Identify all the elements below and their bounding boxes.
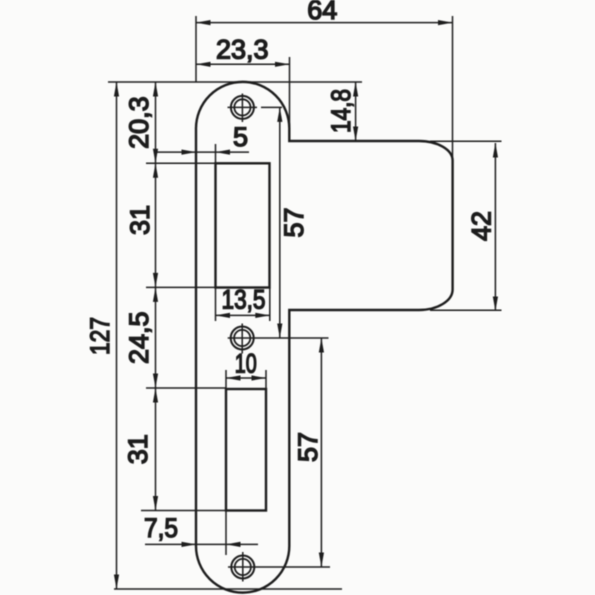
middle screw hole crosshair [228, 324, 262, 354]
svg-text:23,3: 23,3 [216, 35, 269, 65]
dimension 127 line [116, 82, 118, 589]
dimension 23,3 line [196, 63, 290, 65]
svg-text:57: 57 [293, 432, 323, 462]
dimension 57 second (between middle and bottom hole) [320, 338, 322, 567]
arrows 31 [153, 163, 158, 178]
svg-text:13,5: 13,5 [222, 284, 266, 314]
left stacked dimension line x=155.5 [155, 82, 157, 511]
left extension line x=196 (64 and 23,3) [195, 16, 197, 82]
svg-text:64: 64 [307, 0, 337, 25]
dimension 57 first (between top and middle hole) [279, 107, 281, 338]
deadbolt rectangular hole (10 x 31) [226, 389, 266, 511]
arrows 31 second [153, 388, 158, 403]
svg-text:31: 31 [125, 205, 155, 235]
svg-text:14,8: 14,8 [326, 89, 356, 133]
bottom extension line y=589 [114, 588, 342, 590]
dimension 13,5 [216, 314, 270, 316]
strike plate outline [196, 82, 453, 593]
svg-text:127: 127 [85, 317, 115, 355]
top extension line y=82 [108, 81, 362, 83]
svg-text:10: 10 [235, 349, 257, 379]
svg-text:24,5: 24,5 [124, 311, 154, 364]
tick x=215.5 for 5 [215, 144, 217, 163]
tick y=287.4 [146, 286, 216, 288]
bottom screw hole [231, 556, 254, 579]
10 extension lines [226, 370, 266, 389]
13,5 extension lines [216, 288, 270, 322]
dimension 10 [226, 377, 266, 379]
extension line x=289.5 (23,3) [289, 57, 291, 127]
right extension line x=452.5 (64) [452, 16, 454, 157]
leader middle hole [262, 337, 329, 339]
7,5 extension line [225, 511, 227, 556]
arrows 24,5 [153, 287, 158, 302]
leader top hole [262, 106, 282, 108]
dimension 5 line [157, 151, 249, 153]
tick y=510.5 [141, 510, 226, 512]
svg-text:7,5: 7,5 [144, 513, 178, 543]
dimension 14,8 [355, 82, 357, 141]
dimension 64 line [196, 22, 453, 24]
tick y=163.3 [146, 162, 216, 164]
dimension 7,5 [145, 543, 258, 545]
leader bottom hole [262, 566, 330, 568]
bottom screw hole crosshair [228, 552, 262, 582]
arrows 20,3 [153, 82, 158, 97]
svg-text:57: 57 [279, 207, 309, 237]
42 extension lines [430, 141, 502, 310]
middle screw hole [231, 327, 254, 350]
svg-text:31: 31 [123, 434, 153, 464]
tick y=388 [146, 387, 226, 389]
svg-text:20,3: 20,3 [124, 96, 154, 149]
svg-text:5: 5 [233, 122, 248, 152]
top screw hole [231, 96, 254, 119]
dimension 42 [494, 143, 496, 311]
latch rectangular hole (13,5 x 31) [216, 163, 270, 287]
svg-text:42: 42 [467, 211, 497, 241]
top screw hole crosshair [228, 94, 263, 123]
